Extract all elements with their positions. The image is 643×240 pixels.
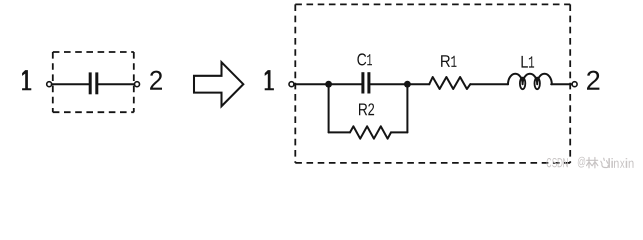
terminal 2 (right circuit) (572, 82, 577, 87)
capacitor C1 (361, 72, 370, 93)
terminal 1 (left circuit) (47, 82, 52, 87)
wire capacitor-terminal2 (left circuit) (98, 83, 134, 85)
watermark linxin (608, 158, 633, 168)
label C1 (357, 53, 372, 65)
terminal 1 (right circuit) (289, 82, 294, 87)
wire nodeB-R1 (407, 83, 429, 85)
dashed box (right circuit) (295, 4, 570, 163)
label L1 (522, 56, 535, 68)
node 1 label (left circuit) (22, 70, 31, 90)
wire terminal1-capacitor (left circuit) (52, 83, 89, 85)
wire branch bottom-left (329, 131, 350, 133)
watermark @ (578, 157, 585, 168)
node 1 label (right circuit) (265, 70, 274, 90)
junction node B (404, 81, 411, 88)
watermark CSDN (547, 158, 568, 167)
wire branch bottom-right (391, 131, 407, 133)
watermark hanzi xin (heart) (601, 158, 608, 167)
label R1 (441, 55, 456, 67)
wire terminal1-nodeA (294, 83, 329, 85)
node 2 label (right circuit) (587, 71, 599, 90)
wire L1-terminal2 (551, 83, 572, 85)
wire nodeA-branch (down) (328, 84, 330, 132)
terminal 2 (left circuit) (135, 82, 140, 87)
watermark hanzi lin (tree radical x2) (587, 158, 598, 168)
dashed box (left circuit) (53, 52, 134, 112)
node 2 label (left circuit) (150, 71, 162, 90)
wire nodeB-branch (down) (406, 84, 408, 132)
junction node A (325, 81, 332, 88)
resistor R2 (350, 126, 391, 138)
wire C1-nodeB (370, 83, 407, 85)
arrow (equivalence) (194, 62, 243, 106)
inductor L1 (508, 74, 552, 85)
label R2 (359, 103, 374, 115)
resistor R1 (429, 77, 470, 89)
capacitor (left circuit) (89, 72, 99, 94)
wire R1-L1 (470, 83, 508, 85)
wire nodeA-C1 (329, 83, 362, 85)
